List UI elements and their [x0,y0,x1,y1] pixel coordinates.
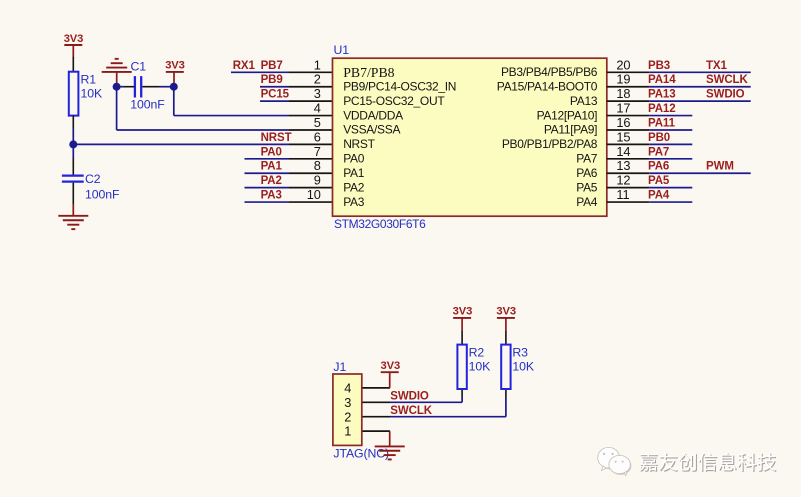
svg-text:PA4: PA4 [648,190,670,202]
svg-text:PC15-OSC32_OUT: PC15-OSC32_OUT [343,94,445,108]
ground (C2) [72,204,74,216]
svg-text:TX1: TX1 [706,60,727,72]
wire VSSA [116,87,118,130]
svg-text:R2: R2 [469,346,485,360]
svg-text:8: 8 [314,158,321,173]
wire [649,129,692,131]
wire SWCLK [390,416,506,418]
svg-text:7: 7 [314,144,321,159]
node C1 right junction [170,83,178,91]
wire [117,86,124,88]
U1 pin 9 stub [289,187,333,189]
svg-text:PA12: PA12 [648,103,676,115]
svg-text:1: 1 [344,424,351,439]
svg-text:14: 14 [616,144,630,159]
resistor R1 [69,72,79,116]
svg-text:18: 18 [616,86,630,101]
U1 pin 14 stub [607,158,650,160]
wire [245,187,290,189]
svg-text:PA12[PA10]: PA12[PA10] [537,108,598,122]
node NRST junction [69,140,77,148]
svg-text:PA6: PA6 [648,161,669,173]
svg-text:R1: R1 [81,73,97,87]
svg-text:13: 13 [616,158,630,173]
U1 pin 8 stub [289,172,333,174]
svg-text:PA2: PA2 [343,180,365,194]
wire [649,143,692,145]
svg-text:PB7/PB8: PB7/PB8 [343,65,394,80]
watermark wechat icon [599,449,632,475]
svg-text:J1: J1 [333,360,346,374]
svg-text:PA0: PA0 [343,152,365,166]
capacitor C1 [134,76,136,97]
svg-text:PA6: PA6 [576,166,598,180]
svg-text:PA11[PA9]: PA11[PA9] [544,123,597,137]
watermark text 嘉友创信息科技 [640,454,776,472]
U1 pin 12 stub [607,187,650,189]
svg-text:PA4: PA4 [576,195,598,209]
svg-text:C2: C2 [85,172,101,186]
svg-text:PB0/PB1/PB2/PA8: PB0/PB1/PB2/PA8 [502,137,598,151]
svg-text:PB0: PB0 [648,132,670,144]
wire NRST to U1 pin 6 [73,143,289,145]
U1 pin 18 stub [607,100,650,102]
svg-text:17: 17 [616,101,630,116]
svg-text:PB7: PB7 [261,60,283,72]
svg-text:4: 4 [344,381,351,396]
svg-text:VSSA/SSA: VSSA/SSA [343,123,400,137]
svg-text:PA5: PA5 [648,175,670,187]
U1 pin 5 stub [289,129,333,131]
svg-text:11: 11 [616,187,629,202]
svg-text:PA13: PA13 [648,89,676,101]
svg-text:15: 15 [616,129,630,144]
svg-text:RX1: RX1 [233,60,256,72]
svg-text:SWCLK: SWCLK [390,405,432,417]
svg-text:2: 2 [344,409,351,424]
svg-text:PA7: PA7 [648,146,669,158]
svg-text:PA1: PA1 [261,161,283,173]
svg-text:SWCLK: SWCLK [706,74,748,86]
wire [260,100,289,102]
svg-text:NRST: NRST [343,137,375,151]
U1 pin 11 stub [607,201,650,203]
svg-text:PB9: PB9 [261,74,283,86]
wire [245,172,290,174]
U1 pin 3 stub [289,100,333,102]
svg-text:2: 2 [314,72,321,87]
U1 pin 7 stub [289,158,333,160]
svg-text:100nF: 100nF [130,98,165,112]
svg-text:3: 3 [344,395,351,410]
svg-text:PA2: PA2 [261,175,282,187]
connector J1 body [333,374,362,445]
wire [649,71,750,73]
svg-text:3V3: 3V3 [380,360,400,372]
svg-text:PA5: PA5 [576,180,598,194]
svg-text:VDDA/DDA: VDDA/DDA [343,108,403,122]
wire [260,86,289,88]
svg-text:R3: R3 [512,346,528,360]
ground (C1, inverted) [102,71,132,73]
svg-text:PB3: PB3 [648,60,670,72]
node C1 left junction [113,83,121,91]
svg-text:10K: 10K [469,360,491,374]
svg-text:STM32G030F6T6: STM32G030F6T6 [334,217,426,231]
capacitor C2 [62,175,84,177]
svg-text:5: 5 [314,115,321,130]
wire [142,86,159,88]
svg-text:1: 1 [314,57,321,72]
svg-text:C1: C1 [131,60,147,74]
svg-text:PA11: PA11 [648,117,676,129]
svg-text:19: 19 [616,72,630,87]
svg-text:3V3: 3V3 [64,33,84,45]
wire [245,158,290,160]
svg-text:6: 6 [314,129,321,144]
wire VDDA [173,87,175,116]
resistor R3 [501,345,510,389]
svg-text:SWDIO: SWDIO [390,391,429,403]
U1 pin 17 stub [607,115,650,117]
svg-text:9: 9 [314,173,321,188]
ground (J1 pin1) [389,431,391,446]
svg-text:PWM: PWM [706,161,734,173]
svg-text:10: 10 [307,187,321,202]
wire [505,331,507,345]
wire [72,183,74,204]
svg-text:3V3: 3V3 [165,60,185,72]
svg-text:PA3: PA3 [261,190,282,202]
wire [231,71,289,73]
svg-text:PA7: PA7 [576,152,598,166]
svg-text:12: 12 [616,173,630,188]
U1 pin 16 stub [607,129,650,131]
U1 pin 13 stub [607,172,650,174]
svg-text:NRST: NRST [261,132,292,144]
IC U1 STM32G030F6T6 body [333,58,607,216]
svg-text:16: 16 [616,115,630,130]
svg-text:20: 20 [616,57,630,72]
svg-text:JTAG(NC): JTAG(NC) [333,447,389,461]
U1 pin 15 stub [607,143,650,145]
svg-text:SWDIO: SWDIO [706,89,745,101]
wire [649,100,750,102]
svg-text:PA1: PA1 [343,166,365,180]
resistor R2 [457,345,466,389]
svg-text:U1: U1 [334,43,350,57]
U1 pin 1 stub [289,71,333,73]
U1 pin 19 stub [607,86,650,88]
wire [649,187,692,189]
U1 pin 2 stub [289,86,333,88]
svg-text:10K: 10K [81,87,103,101]
wire [649,172,750,174]
svg-text:PA15/PA14-BOOT0: PA15/PA14-BOOT0 [497,79,598,93]
svg-text:PA0: PA0 [261,146,282,158]
wire SWDIO [390,401,462,403]
U1 pin 6 stub [289,143,333,145]
svg-text:PA14: PA14 [648,74,676,86]
svg-text:10K: 10K [512,360,534,374]
U1 pin 10 stub [289,201,333,203]
svg-text:PC15: PC15 [261,89,290,101]
svg-text:3: 3 [314,86,321,101]
U1 pin 4 stub [289,115,333,117]
U1 pin 20 stub [607,71,650,73]
wire [649,201,692,203]
svg-text:PA3: PA3 [343,195,365,209]
wire [649,115,692,117]
svg-text:4: 4 [314,101,321,116]
svg-text:PA13: PA13 [570,94,598,108]
svg-text:PB3/PB4/PB5/PB6: PB3/PB4/PB5/PB6 [501,65,598,79]
wire [649,158,692,160]
svg-text:3V3: 3V3 [453,306,473,318]
svg-text:PB9/PC14-OSC32_IN: PB9/PC14-OSC32_IN [343,79,456,93]
wire [245,201,290,203]
wire [461,331,463,345]
svg-text:3V3: 3V3 [496,306,516,318]
svg-text:100nF: 100nF [85,188,120,202]
wire [72,116,74,129]
wire [649,86,750,88]
wire [72,57,74,72]
